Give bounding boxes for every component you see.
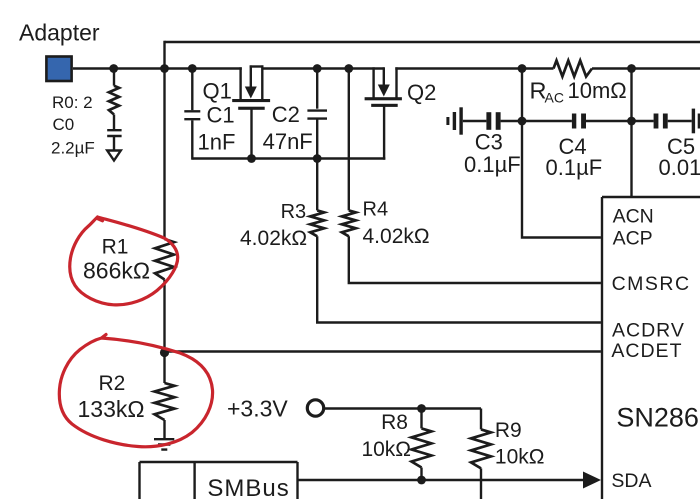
- svg-text:ACP: ACP: [613, 228, 653, 250]
- svg-text:4.02kΩ: 4.02kΩ: [363, 225, 430, 248]
- arrow into SDA pin: [583, 472, 601, 489]
- svg-text:R3: R3: [281, 201, 307, 223]
- resistor R8: [420, 409, 422, 429]
- capacitor C1: [191, 69, 193, 111]
- wire +3.3V rail: [325, 407, 482, 409]
- svg-text:133kΩ: 133kΩ: [78, 396, 145, 422]
- node rail/R0 junction: [109, 64, 118, 73]
- red circle around R2: [59, 335, 212, 447]
- svg-text:C0: C0: [53, 115, 75, 134]
- wire left long vertical (R1/R2 column): [163, 41, 165, 239]
- svg-text:10kΩ: 10kΩ: [361, 438, 411, 461]
- wire ACN vertical: [630, 69, 632, 198]
- node cap row ACP: [518, 117, 527, 126]
- resistor R1: [155, 239, 174, 280]
- resistor R0: [113, 69, 115, 86]
- capacitor C0: [113, 115, 115, 130]
- ground under R2: [154, 439, 174, 449]
- capacitor right edge stub: [692, 109, 695, 134]
- svg-text:R4: R4: [363, 199, 389, 221]
- wire main adapter rail: [73, 67, 242, 69]
- node rail/C1 junction: [188, 64, 197, 73]
- node R8 bottom / SDA: [417, 476, 426, 485]
- capacitor row: left stub plates: [446, 117, 449, 125]
- capacitor C5: [632, 120, 654, 122]
- +3.3V terminal circle: [307, 400, 323, 416]
- svg-text:C1: C1: [207, 103, 235, 128]
- svg-text:SMBus: SMBus: [207, 475, 289, 499]
- svg-text:ACN: ACN: [613, 206, 654, 228]
- svg-text:4.02kΩ: 4.02kΩ: [240, 227, 307, 250]
- svg-text:10kΩ: 10kΩ: [495, 446, 545, 469]
- svg-text:866kΩ: 866kΩ: [83, 258, 150, 284]
- svg-text:R9: R9: [495, 419, 522, 442]
- svg-text:ACDRV: ACDRV: [612, 320, 685, 342]
- wire top bus: [165, 41, 700, 43]
- capacitor C4: [522, 120, 572, 122]
- wire bottom rail: [192, 157, 385, 159]
- capacitor C2: [316, 69, 318, 109]
- resistor R2: [155, 383, 175, 420]
- red circle around R1: [70, 217, 178, 305]
- IC box SN286x: [602, 197, 700, 499]
- svg-text:CMSRC: CMSRC: [612, 273, 691, 295]
- svg-text:ACDET: ACDET: [611, 340, 682, 362]
- svg-text:C2: C2: [272, 102, 300, 127]
- svg-text:Adapter: Adapter: [19, 19, 100, 45]
- ground (open triangle) under C0: [107, 151, 121, 161]
- node rail/R4 junction: [344, 64, 353, 73]
- node rail/C2 junction: [313, 64, 322, 73]
- node Q1 gate / bottom rail: [247, 154, 256, 163]
- svg-text:Q1: Q1: [203, 79, 232, 104]
- transistor Q2: [372, 67, 374, 98]
- node R8 top: [417, 404, 426, 413]
- svg-text:0.1µF: 0.1µF: [464, 152, 521, 177]
- node ACDET junction: [160, 348, 169, 357]
- node rail/RAC left: [518, 64, 527, 73]
- svg-text:10mΩ: 10mΩ: [568, 78, 627, 103]
- capacitor C3: [463, 120, 487, 122]
- node cap row ACN: [627, 117, 636, 126]
- svg-text:2.2µF: 2.2µF: [51, 139, 95, 158]
- svg-text:SN2861: SN2861: [616, 403, 700, 433]
- svg-text:0.01µF: 0.01µF: [659, 155, 700, 180]
- svg-text:+3.3V: +3.3V: [227, 396, 288, 422]
- svg-text:1nF: 1nF: [198, 130, 236, 155]
- wire ACDET: [165, 350, 601, 352]
- svg-text:47nF: 47nF: [263, 129, 313, 154]
- svg-text:R8: R8: [381, 411, 408, 434]
- svg-text:R0: 2: R0: 2: [52, 93, 93, 112]
- SMBus box: [140, 462, 298, 499]
- wire rail far right: [592, 67, 700, 69]
- wire R4 to CMSRC: [349, 236, 601, 283]
- node rail/R1 junction: [160, 64, 169, 73]
- resistor R3: [316, 159, 318, 211]
- svg-text:0.1µF: 0.1µF: [546, 155, 603, 180]
- svg-text:Q2: Q2: [407, 80, 436, 105]
- adapter blue square terminal: [46, 57, 71, 82]
- svg-text:R1: R1: [102, 236, 129, 259]
- wire R3 to ACDRV: [317, 236, 601, 322]
- svg-text:SDA: SDA: [611, 470, 651, 492]
- wire ACP vertical: [522, 69, 601, 238]
- svg-text:R2: R2: [99, 372, 126, 395]
- wire rail right segment: [395, 67, 553, 69]
- node C2 / bottom rail: [313, 154, 322, 163]
- resistor R_AC: [554, 61, 593, 77]
- svg-text:AC: AC: [545, 90, 564, 106]
- wire SDA: [298, 479, 585, 481]
- wire rail mid segment: [262, 67, 384, 69]
- node rail/RAC right: [627, 64, 636, 73]
- transistor Q1: [239, 67, 241, 99]
- resistor R9: [480, 409, 482, 430]
- svg-text:C3: C3: [475, 130, 503, 155]
- resistor R4: [348, 69, 350, 211]
